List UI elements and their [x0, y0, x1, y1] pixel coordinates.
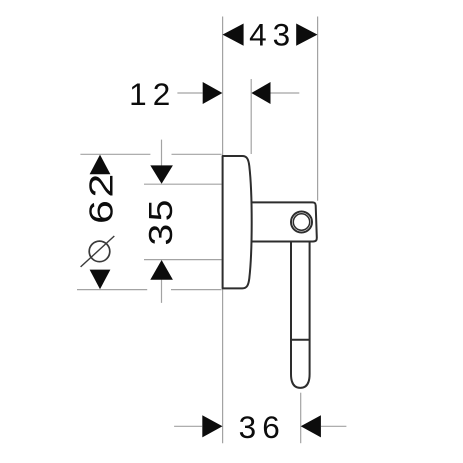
svg-text:36: 36	[239, 409, 286, 445]
wire 35-bottom extension line	[144, 259, 222, 261]
wire 62-bottom extension line	[77, 289, 222, 291]
wire 35 dimension tails	[161, 140, 163, 303]
arrow 12 right-pointing	[203, 82, 223, 104]
arrow 35 down-pointing	[150, 165, 173, 183]
wire 12 dimension tails	[177, 92, 299, 94]
wall plate (side view)	[223, 156, 252, 288]
arrow 12 left-pointing	[251, 82, 270, 104]
arrow 36 left-pointing	[301, 415, 321, 437]
label 62 (rotated)	[83, 171, 120, 224]
svg-text:35: 35	[142, 197, 179, 245]
svg-text:12: 12	[129, 76, 176, 112]
rod (holder bar)	[291, 242, 310, 388]
arm bracket	[248, 202, 317, 241]
wire rod center line	[300, 393, 302, 444]
screw outer circle	[291, 212, 312, 233]
svg-text:62: 62	[83, 171, 120, 224]
arrow 62 up	[90, 155, 111, 175]
arrow 36 right-pointing	[202, 415, 222, 437]
arrow 62 down	[90, 270, 111, 290]
wire 35-top extension line	[144, 183, 222, 185]
arrow 35 up-pointing	[150, 260, 173, 280]
diameter symbol	[81, 236, 115, 267]
arrow 43 right	[296, 24, 317, 46]
svg-text:43: 43	[249, 16, 296, 52]
wire wall extension line (upper)	[222, 17, 224, 156]
rod seam line	[291, 339, 310, 341]
wire arm front extension line	[317, 17, 319, 201]
wire wall extension line (lower)	[222, 289, 224, 443]
wire 36 dimension tails	[174, 425, 346, 427]
wire plate front extension line	[250, 79, 252, 154]
arrow 43 left	[223, 24, 244, 46]
wire 62-top extension line	[80, 153, 221, 155]
screw inner circle	[293, 214, 309, 230]
label 35 (rotated)	[142, 197, 179, 245]
